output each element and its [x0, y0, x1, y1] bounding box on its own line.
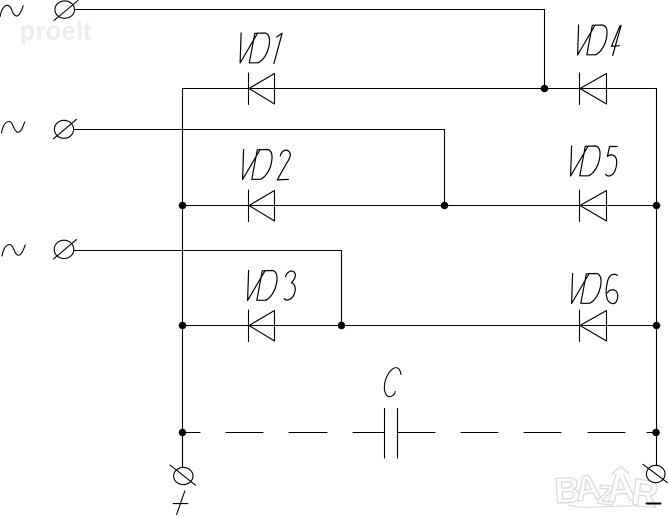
node junction row2 left — [179, 202, 187, 210]
wire phase 3 drop — [341, 251, 343, 326]
wire phase 3 horizontal — [74, 250, 342, 252]
node junction row3 left — [179, 322, 187, 330]
capacitor C plates — [385, 409, 398, 459]
diode VD2 — [249, 190, 275, 222]
label plus — [173, 491, 188, 515]
node junction row2 right — [653, 202, 661, 210]
terminal phase 1 — [54, 1, 78, 21]
terminal minus output — [643, 464, 667, 482]
node junction bottom left — [179, 429, 187, 437]
diode VD4 — [580, 73, 607, 105]
wire row 2 (VD2-VD5 bus) — [183, 205, 657, 207]
diode VD3 — [249, 310, 275, 342]
AC source symbol phase 2 — [2, 122, 25, 134]
wire left rail — [182, 89, 184, 468]
wire bottom dashed bus — [183, 432, 657, 434]
wire phase 1 drop — [544, 10, 546, 89]
watermark BAZAR — [553, 465, 661, 516]
AC source symbol phase 1 — [0, 5, 23, 16]
wire row 3 (VD3-VD6 bus) — [183, 325, 657, 327]
diode VD5 — [580, 190, 607, 222]
AC source symbol phase 3 — [2, 245, 25, 257]
terminal phase 2 — [54, 119, 77, 139]
label VD3 — [248, 271, 296, 301]
label VD6 — [572, 274, 618, 304]
svg-text:proelt: proelt — [20, 16, 93, 46]
diode VD6 — [580, 310, 607, 342]
wire phase 2 drop — [444, 130, 446, 206]
label VD2 — [243, 150, 291, 180]
wire right rail — [656, 89, 658, 466]
terminal plus output — [170, 465, 196, 485]
node junction phase1/row1 — [541, 85, 549, 93]
svg-text:R: R — [629, 471, 661, 515]
node junction row3 right — [653, 322, 661, 330]
node junction bottom right — [652, 429, 660, 437]
label minus — [647, 503, 661, 505]
label VD4 — [578, 25, 622, 55]
diode VD1 — [249, 73, 275, 105]
wire to plus terminal — [182, 433, 184, 468]
wire phase 1 horizontal — [75, 9, 545, 11]
wire row 1 (VD1-VD4 cathode bus) — [183, 88, 657, 90]
node junction phase3/row3 — [338, 322, 346, 330]
label C — [384, 368, 401, 397]
node junction phase2/row2 — [441, 202, 449, 210]
terminal phase 3 — [54, 240, 77, 259]
wire phase 2 horizontal — [74, 129, 445, 131]
label VD5 — [571, 146, 618, 176]
label VD1 — [240, 33, 282, 64]
